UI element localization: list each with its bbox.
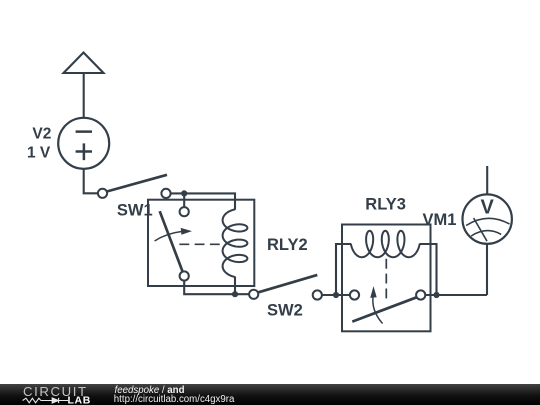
logo diode <box>46 398 68 403</box>
RLY2 switch top terminal <box>180 207 189 216</box>
wire: RLY3 switch to VM1 bottom corner <box>425 294 487 296</box>
RLY3 switch blade <box>352 297 416 321</box>
RLY3 actuation arrow <box>373 297 383 324</box>
VM1 meter small arc <box>471 231 501 236</box>
RLY3 dashed link <box>385 259 387 299</box>
wire: terminal to coil top corner <box>171 193 235 209</box>
svg-text:http://circuitlab.com/c4gx9ra: http://circuitlab.com/c4gx9ra <box>114 394 235 405</box>
wire: V2 bottom to SW1 <box>84 169 98 194</box>
voltage source V2 circle <box>58 118 109 169</box>
switch SW1 left terminal <box>98 189 107 198</box>
VM1 needle <box>474 218 487 241</box>
svg-text:VM1: VM1 <box>423 211 457 229</box>
RLY3 switch right terminal <box>416 290 425 299</box>
junction dot (coil branch left) <box>333 292 339 298</box>
relay RLY2 box <box>148 200 254 286</box>
svg-text:SW2: SW2 <box>267 302 303 320</box>
wire: flag to V2 top <box>83 73 85 118</box>
svg-text:V: V <box>481 197 495 219</box>
switch SW2 right terminal <box>313 290 322 299</box>
wire: junction up to coil left end <box>336 244 351 295</box>
RLY2 dashed link <box>179 243 219 245</box>
V2 plus sign <box>76 143 92 160</box>
VM1 meter large arc <box>466 218 509 225</box>
RLY3 coil <box>351 231 420 257</box>
wire: SW2 to RLY3 switch <box>322 294 350 296</box>
switch SW2 left terminal <box>249 290 258 299</box>
logo resistor zigzag <box>23 398 46 403</box>
voltmeter VM1 circle <box>463 194 512 243</box>
RLY2 switch blade <box>160 211 185 276</box>
junction dot <box>181 190 187 196</box>
V2 minus sign <box>76 130 92 133</box>
switch SW1 blade <box>107 175 167 192</box>
RLY2 switch bottom terminal <box>180 271 189 280</box>
RLY2 input terminal (SW1 right terminal) <box>161 189 170 198</box>
svg-text:V2: V2 <box>32 125 51 142</box>
switch SW2 blade <box>258 275 317 293</box>
wire: VM1 bottom riser <box>486 244 488 295</box>
RLY3 switch left terminal <box>350 290 359 299</box>
svg-text:RLY3: RLY3 <box>365 195 406 213</box>
RLY2 actuation arrow <box>155 232 182 242</box>
svg-text:RLY2: RLY2 <box>267 236 308 254</box>
wire: coil bottom to junction <box>234 277 236 295</box>
VM1 top stub wire <box>486 166 488 194</box>
svg-text:1 V: 1 V <box>27 145 51 162</box>
net flag triangle (top antenna symbol) <box>64 53 104 74</box>
RLY2 coil <box>223 209 248 277</box>
wire: coil right end to right drop <box>419 244 436 295</box>
wire: switch bottom to SW2 <box>184 281 249 295</box>
wire: junction down to switch common <box>183 193 185 207</box>
junction dot (coil branch right) <box>433 292 439 298</box>
junction dot (coil/switch bottom) <box>232 291 238 297</box>
relay RLY3 box <box>342 225 431 332</box>
svg-text:LAB: LAB <box>68 395 91 405</box>
